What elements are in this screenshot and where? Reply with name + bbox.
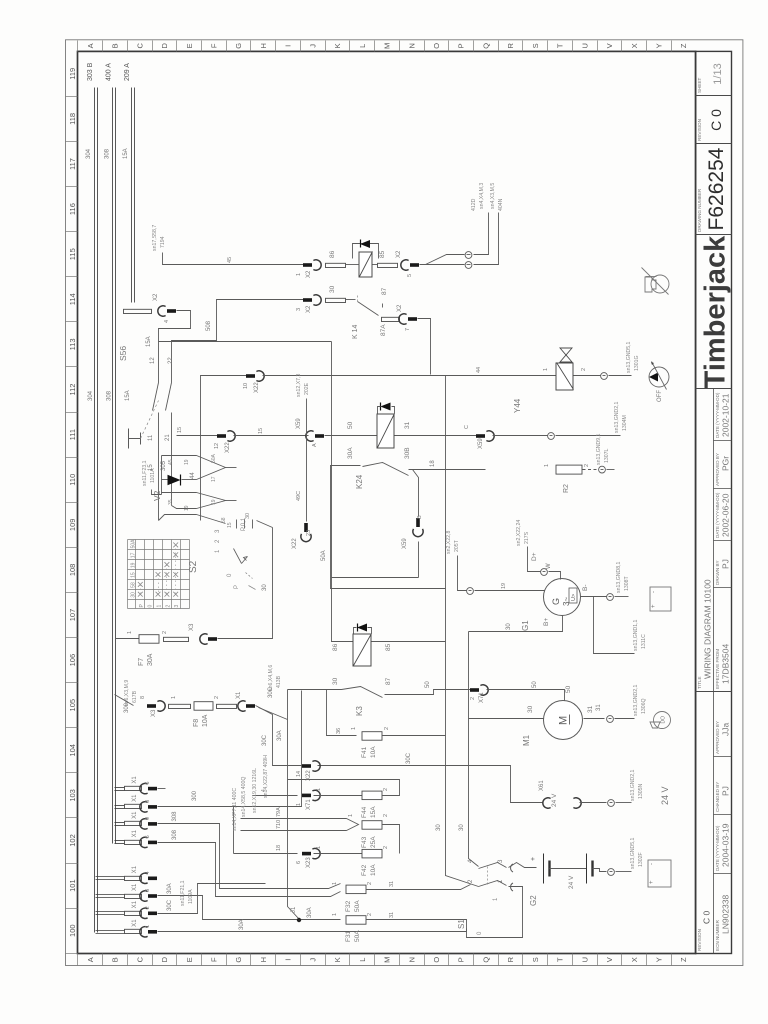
svg-text:19: 19 <box>211 499 217 505</box>
svg-text:30A: 30A <box>347 447 354 459</box>
svg-text:49C: 49C <box>296 491 302 501</box>
svg-text:17: 17 <box>211 476 217 482</box>
svg-text:+: + <box>651 604 657 608</box>
svg-text:WIRING DIAGRAM 10100: WIRING DIAGRAM 10100 <box>703 579 713 679</box>
connector X1 pin 2 <box>96 911 125 913</box>
svg-text:2002-10-21: 2002-10-21 <box>720 393 730 437</box>
svg-text:2: 2 <box>367 882 373 885</box>
wire 30A trunk with junction J1 <box>259 708 341 920</box>
wire 50 to K24 coil <box>325 435 378 437</box>
svg-text:D+: D+ <box>531 552 538 561</box>
svg-text:sn4,X4,M,3: sn4,X4,M,3 <box>479 183 485 209</box>
svg-text:5: 5 <box>145 835 151 838</box>
svg-text:304: 304 <box>86 148 92 159</box>
svg-text:85: 85 <box>385 643 392 651</box>
svg-text:1: 1 <box>171 696 177 699</box>
S1 position 0 loop <box>467 887 523 938</box>
svg-text:X: X <box>630 43 639 48</box>
connector X1 pin 3 <box>96 894 125 896</box>
wire M1 31 to ground 1306Q <box>584 718 605 720</box>
svg-text:D: D <box>160 956 169 962</box>
svg-text:2: 2 <box>367 913 373 916</box>
svg-text:2004-03-19: 2004-03-19 <box>720 823 730 867</box>
svg-text:F: F <box>210 957 219 962</box>
wire 15 down from S56-11 <box>158 446 160 521</box>
svg-text:sn13,GND1,1: sn13,GND1,1 <box>633 619 639 651</box>
svg-text:1304M: 1304M <box>622 415 628 431</box>
svg-text:sn14,X22,87 409H: sn14,X22,87 409H <box>263 755 269 798</box>
svg-text:1: 1 <box>544 464 550 467</box>
svg-text:44: 44 <box>190 472 196 479</box>
connector X22 pin 23 (vertical) <box>304 523 308 532</box>
svg-text:2: 2 <box>165 605 171 608</box>
svg-text:sn2,X22,24: sn2,X22,24 <box>516 520 522 546</box>
fuse F44 15A <box>314 795 363 797</box>
fuse F43 25A with chevron feed <box>241 818 347 820</box>
svg-text:30: 30 <box>131 592 137 598</box>
svg-text:300: 300 <box>192 790 198 801</box>
svg-text:111: 111 <box>68 429 77 440</box>
svg-text:X2: X2 <box>397 304 403 312</box>
svg-text:sn13,GND2,1: sn13,GND2,1 <box>633 684 639 716</box>
svg-text:V2: V2 <box>152 490 162 501</box>
svg-text:F42: F42 <box>361 864 368 876</box>
svg-text:-: - <box>651 591 657 593</box>
Y44 valve symbol <box>560 348 572 355</box>
svg-text:1: 1 <box>332 882 338 885</box>
svg-text:I: I <box>284 959 293 961</box>
svg-text:308: 308 <box>105 148 111 159</box>
svg-text:X22: X22 <box>254 382 260 393</box>
wire 45 to X2-1 <box>163 253 304 265</box>
svg-text:58: 58 <box>221 517 227 523</box>
svg-text:31: 31 <box>404 421 411 429</box>
svg-text:109: 109 <box>68 519 77 532</box>
svg-text:87A: 87A <box>380 324 387 336</box>
connector X22 pin 10 <box>246 374 255 378</box>
svg-text:116: 116 <box>68 203 77 215</box>
svg-text:J: J <box>308 958 317 962</box>
diode across coil <box>353 244 362 259</box>
svg-text:K24: K24 <box>355 474 364 489</box>
svg-text:S1: S1 <box>457 919 466 929</box>
svg-text:REVISION: REVISION <box>697 929 702 951</box>
svg-text:F43: F43 <box>361 836 368 848</box>
svg-text:X: X <box>630 957 639 962</box>
svg-text:112: 112 <box>68 384 77 396</box>
svg-text:10: 10 <box>243 383 249 389</box>
svg-text:M1: M1 <box>522 734 531 746</box>
svg-text:87: 87 <box>385 677 392 685</box>
svg-text:103: 103 <box>68 789 77 802</box>
battery outline box upper <box>650 587 671 611</box>
relay coil with diode (86/85) <box>326 263 346 267</box>
svg-text:SHEET: SHEET <box>697 77 702 93</box>
svg-text:31: 31 <box>389 881 395 887</box>
wire 44 to Y44 and K3 <box>263 375 557 377</box>
svg-text:11: 11 <box>148 434 154 441</box>
svg-text:19: 19 <box>184 505 190 511</box>
svg-text:404N: 404N <box>498 198 504 211</box>
svg-text:H: H <box>259 43 268 48</box>
svg-text:K: K <box>333 43 342 48</box>
svg-text:B+: B+ <box>543 618 550 626</box>
svg-text:308: 308 <box>107 390 113 401</box>
crossed-out horn icon <box>651 275 669 293</box>
svg-text:PGr: PGr <box>720 456 730 471</box>
svg-text:304: 304 <box>88 390 94 401</box>
svg-text:R: R <box>506 43 515 49</box>
svg-text:1: 1 <box>348 814 354 817</box>
svg-text:50: 50 <box>347 421 354 429</box>
svg-text:D: D <box>160 43 169 49</box>
svg-text:44: 44 <box>476 367 482 373</box>
svg-text:101: 101 <box>68 879 77 892</box>
svg-text:A: A <box>312 443 318 447</box>
wire 308 from X1-9 <box>158 824 341 889</box>
battery G2 <box>509 863 537 868</box>
svg-text:2: 2 <box>145 906 151 909</box>
svg-text:7: 7 <box>405 328 411 331</box>
connector X1 pin 6 <box>115 787 125 789</box>
svg-text:H: H <box>259 957 268 962</box>
svg-text:19: 19 <box>184 459 190 465</box>
sheet border frame <box>66 40 743 966</box>
svg-text:P: P <box>234 585 240 589</box>
svg-text:30: 30 <box>506 623 512 630</box>
wire 300 from X1-8 <box>158 691 302 807</box>
grid reference numbers strip (top) <box>66 953 78 955</box>
wire 15A to switch S56 <box>159 311 191 370</box>
svg-text:19: 19 <box>131 562 137 568</box>
svg-text:30C: 30C <box>262 734 268 746</box>
svg-text:21: 21 <box>165 434 171 441</box>
battery outline box lower <box>648 860 671 887</box>
svg-text:1: 1 <box>296 273 302 276</box>
connector X1 pin 8 <box>115 805 125 807</box>
svg-text:+: + <box>649 880 655 884</box>
wire 30A from X1-1 to S1 <box>158 931 467 933</box>
svg-text:30C: 30C <box>268 686 274 698</box>
svg-text:50A: 50A <box>131 539 137 549</box>
svg-text:2: 2 <box>214 696 220 699</box>
svg-text:3: 3 <box>296 308 302 311</box>
svg-text:E: E <box>185 957 194 962</box>
svg-text:X1: X1 <box>132 883 138 891</box>
wire X1-6 stub <box>158 788 166 790</box>
wire 305 down from S56-21 <box>171 446 173 506</box>
svg-text:T: T <box>556 43 565 48</box>
svg-text:Y44: Y44 <box>513 398 522 413</box>
svg-text:B-: B- <box>582 585 589 592</box>
svg-text:58: 58 <box>131 582 137 588</box>
svg-text:102: 102 <box>68 834 77 847</box>
svg-text:G1: G1 <box>521 620 530 631</box>
svg-text:R: R <box>506 956 515 962</box>
svg-text:sn12,X19,30 1216L: sn12,X19,30 1216L <box>252 768 258 813</box>
B- branch to 1311C ground <box>594 597 635 654</box>
svg-text:1101A: 1101A <box>150 468 156 483</box>
svg-text:J1: J1 <box>291 906 297 913</box>
svg-text:J: J <box>308 44 317 48</box>
S2 terminal ticks <box>236 520 238 529</box>
svg-text:X1: X1 <box>236 691 242 699</box>
svg-text:17DB3504: 17DB3504 <box>720 644 730 684</box>
svg-text:45: 45 <box>168 459 174 465</box>
svg-text:C: C <box>135 43 144 49</box>
svg-text:K: K <box>333 957 342 962</box>
title block <box>696 51 732 953</box>
svg-text:308: 308 <box>172 811 178 822</box>
svg-text:1: 1 <box>157 605 163 608</box>
fuse F7 30A <box>116 638 140 640</box>
svg-text:DRAWING NUMBER: DRAWING NUMBER <box>697 188 702 232</box>
svg-text:C 0: C 0 <box>708 109 724 131</box>
svg-text:X3: X3 <box>151 709 157 717</box>
svg-text:G: G <box>234 43 243 49</box>
svg-text:12: 12 <box>150 357 156 364</box>
engine off actuator icon with OFF label <box>649 367 669 387</box>
svg-text:25A: 25A <box>370 836 377 848</box>
wire 44 branch down to K3 coil 85 and S1 <box>446 376 479 887</box>
wire 30B to X59-B and R2 <box>409 469 486 471</box>
svg-text:30: 30 <box>527 705 534 713</box>
svg-text:G: G <box>551 598 561 605</box>
svg-text:X1: X1 <box>132 919 138 927</box>
svg-text:U>: U> <box>571 594 577 601</box>
svg-text:F31: F31 <box>345 930 352 942</box>
svg-text:N: N <box>407 43 416 48</box>
svg-text:79A: 79A <box>276 807 282 817</box>
svg-text:S: S <box>531 43 540 48</box>
horn icon <box>654 712 671 729</box>
svg-text:G: G <box>234 957 243 963</box>
svg-text:2: 2 <box>383 788 389 791</box>
svg-text:50: 50 <box>532 681 538 688</box>
connector X22 pin 12 <box>217 434 226 438</box>
svg-text:-: - <box>649 863 655 865</box>
svg-text:F44: F44 <box>361 806 368 818</box>
svg-text:87: 87 <box>381 287 388 295</box>
wire 30A from X1-3 <box>158 896 300 920</box>
ignition switch S2 contact table <box>128 539 190 541</box>
svg-text:205T: 205T <box>454 539 460 552</box>
connector X59 pin B (vertical) <box>416 518 420 527</box>
svg-text:LN902338: LN902338 <box>720 894 730 934</box>
svg-text:X22: X22 <box>306 770 312 781</box>
S56 manual actuator <box>128 429 130 449</box>
drawing number cell F626254 <box>696 234 732 236</box>
svg-text:30A: 30A <box>307 907 313 918</box>
svg-text:C: C <box>135 956 144 962</box>
svg-text:C 0: C 0 <box>701 911 711 925</box>
svg-text:P,0,1: P,0,1 <box>241 517 247 531</box>
svg-text:B: B <box>111 957 120 962</box>
svg-text:30: 30 <box>459 824 465 831</box>
svg-text:P: P <box>457 957 466 962</box>
connector X1 pin 9 <box>115 822 125 824</box>
svg-text:N: N <box>407 957 416 962</box>
svg-text:617B: 617B <box>132 690 138 703</box>
table dashed links <box>140 585 142 595</box>
svg-text:X1: X1 <box>132 865 138 873</box>
svg-text:15: 15 <box>131 572 137 578</box>
svg-text:2: 2 <box>581 368 587 371</box>
svg-text:2: 2 <box>383 814 389 817</box>
sheet cell 1/13 <box>696 95 732 97</box>
svg-text:30: 30 <box>329 285 336 293</box>
svg-text:sn13,GND5,1: sn13,GND5,1 <box>630 837 636 869</box>
svg-text:1306Q: 1306Q <box>641 698 647 714</box>
svg-text:24 V: 24 V <box>568 875 575 889</box>
wire 50A from S56/S2 node down to K3 coil 86 <box>332 342 354 642</box>
svg-text:sn14,X58,5 400Q: sn14,X58,5 400Q <box>241 777 247 817</box>
svg-text:50: 50 <box>565 685 572 693</box>
svg-text:30A: 30A <box>147 653 154 666</box>
svg-text:Y: Y <box>655 43 664 48</box>
svg-text:1/13: 1/13 <box>712 63 724 84</box>
svg-text:36: 36 <box>336 728 342 734</box>
alternator G1 <box>544 579 581 616</box>
svg-text:B: B <box>111 43 120 48</box>
svg-text:105: 105 <box>68 699 77 712</box>
svg-text:B: B <box>417 515 423 519</box>
svg-text:15: 15 <box>258 428 264 434</box>
svg-text:sn14,XP7,11 400C: sn14,XP7,11 400C <box>232 788 238 831</box>
starter motor M1 <box>544 701 583 740</box>
svg-text:104: 104 <box>68 744 77 757</box>
svg-text:W: W <box>546 563 552 569</box>
svg-text:30: 30 <box>262 584 268 591</box>
svg-text:F626254: F626254 <box>705 147 728 230</box>
svg-text:1: 1 <box>145 925 151 928</box>
svg-text:85: 85 <box>379 250 386 258</box>
svg-text:X59: X59 <box>478 438 484 449</box>
svg-text:31: 31 <box>389 912 395 918</box>
svg-text:TITLE: TITLE <box>697 676 702 689</box>
svg-text:15A: 15A <box>125 390 131 401</box>
svg-text:24 V: 24 V <box>660 786 670 805</box>
connector X3 pin 8 <box>115 695 134 706</box>
svg-text:5: 5 <box>407 274 413 277</box>
svg-text:PJ: PJ <box>720 786 730 796</box>
svg-text:50: 50 <box>425 681 431 688</box>
svg-text:308: 308 <box>172 829 178 840</box>
svg-text:1311C: 1311C <box>641 634 647 649</box>
svg-text:110: 110 <box>68 474 77 486</box>
wires 412D and 404N going to sn4 <box>420 264 465 266</box>
wire 30A trunk to K3 contact 30 <box>288 689 342 691</box>
wire from K14 87A down to Y44 feed <box>418 319 431 375</box>
svg-text:2: 2 <box>383 846 389 849</box>
connector X1 pin 1 <box>96 930 125 932</box>
svg-text:50A: 50A <box>211 453 217 463</box>
svg-text:T: T <box>556 957 565 962</box>
svg-text:115: 115 <box>68 248 77 260</box>
svg-text:X2: X2 <box>306 305 312 313</box>
wire from K3 87 to X71-2 <box>385 690 471 695</box>
svg-text:OFF: OFF <box>657 390 663 402</box>
svg-text:30C: 30C <box>167 899 173 911</box>
svg-text:10A: 10A <box>370 746 377 758</box>
svg-text:I: I <box>284 45 293 47</box>
svg-text:86: 86 <box>329 250 336 258</box>
connector X2 pin 3 <box>303 298 312 302</box>
svg-text:3: 3 <box>174 605 180 608</box>
revision table (bottom-left) <box>713 389 715 954</box>
svg-text:113: 113 <box>68 338 77 350</box>
svg-text:8: 8 <box>145 800 151 803</box>
connector X71 pin 2 <box>470 688 479 692</box>
svg-text:L: L <box>358 44 367 48</box>
svg-text:Y: Y <box>655 957 664 962</box>
wire 30 into S2 <box>257 521 273 528</box>
svg-text:Z: Z <box>679 43 688 48</box>
svg-text:S: S <box>531 957 540 962</box>
svg-text:sn13,GND9,1: sn13,GND9,1 <box>596 433 602 465</box>
svg-text:119: 119 <box>68 68 77 80</box>
wire 30C from X22-14 through X61 24V <box>318 766 544 803</box>
svg-text:217S: 217S <box>524 531 530 544</box>
svg-text:1302F: 1302F <box>638 852 644 867</box>
wire to ignition switch 30 <box>218 528 273 639</box>
svg-text:sn13,GND5,1: sn13,GND5,1 <box>626 341 632 373</box>
connector X2 pin 1 <box>303 263 312 267</box>
svg-text:C: C <box>464 425 470 429</box>
svg-text:22: 22 <box>168 357 174 364</box>
svg-text:X1: X1 <box>132 794 138 802</box>
svg-text:2: 2 <box>162 631 168 634</box>
svg-text:U: U <box>580 43 589 48</box>
svg-text:1: 1 <box>316 788 322 791</box>
svg-text:sn17,S58,7: sn17,S58,7 <box>152 225 158 251</box>
svg-text:X22: X22 <box>225 442 231 453</box>
svg-text:100: 100 <box>68 924 77 937</box>
svg-text:30A: 30A <box>277 730 283 741</box>
svg-text:X59: X59 <box>402 538 408 549</box>
wire 308 from X1-5 <box>158 843 341 897</box>
svg-text:F7: F7 <box>138 658 145 666</box>
svg-text:REVISION: REVISION <box>697 119 702 141</box>
wire K24 coil 31 to ground <box>395 435 477 437</box>
svg-text:1301G: 1301G <box>634 355 640 371</box>
relay K24 coil 50/31 with diode <box>377 414 394 448</box>
svg-text:X71: X71 <box>479 692 485 703</box>
svg-text:V: V <box>605 957 614 962</box>
svg-text:300: 300 <box>124 702 130 713</box>
svg-text:30A: 30A <box>239 919 245 930</box>
svg-text:23: 23 <box>306 530 312 536</box>
svg-text:117: 117 <box>68 158 77 170</box>
svg-text:1: 1 <box>351 727 357 730</box>
S2 wire merge chevrons <box>197 456 226 480</box>
fuse F42 10A <box>314 853 363 855</box>
svg-text:X2: X2 <box>396 250 402 258</box>
svg-text:30A: 30A <box>167 883 173 894</box>
svg-text:50A: 50A <box>354 900 361 912</box>
wires 30 feeding S1 <box>469 632 479 867</box>
svg-text:30: 30 <box>436 824 442 831</box>
svg-text:Timberjack: Timberjack <box>699 235 731 388</box>
svg-text:Q: Q <box>481 43 490 49</box>
svg-text:413B: 413B <box>276 675 282 688</box>
svg-text:G2: G2 <box>529 895 538 906</box>
svg-text:0: 0 <box>148 605 154 608</box>
svg-text:7194: 7194 <box>160 236 166 248</box>
svg-text:10A: 10A <box>370 864 377 876</box>
svg-text:V: V <box>605 43 614 48</box>
svg-text:X1: X1 <box>132 900 138 908</box>
